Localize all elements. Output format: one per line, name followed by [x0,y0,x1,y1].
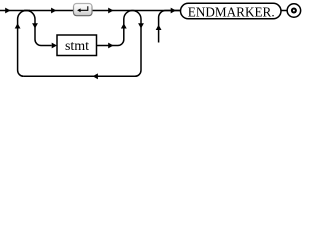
wire: loop-back branch down to bottom rail [24,11,141,77]
arrow: loop-return rail, pointing up [15,23,21,28]
wire: main line start segment [0,10,30,12]
arrow: stmt exit rail, pointing up [121,23,127,28]
wire: loop-return rail left (up into main line) [18,11,27,77]
arrow: bottom rail loop-back, pointing left [93,73,98,79]
nonterminal: stmt box [57,35,97,56]
svg-text:ENDMARKER.: ENDMARKER. [188,4,275,19]
end symbol: bullseye [287,4,301,18]
wire: main line through NEWLINE row [24,10,74,12]
arrow: main line before NEWLINE key, pointing right [51,8,56,14]
wire: skip stub rising into main line before ENDMARKER [159,11,181,43]
arrowheads [5,8,176,80]
wire: stmt row exit up to main line [97,11,133,46]
arrow: into ENDMARKER oval, pointing right [171,8,176,14]
arrow: main line after NEWLINE key, pointing right [108,8,113,14]
svg-text:stmt: stmt [65,39,89,54]
arrow: branch to stmt, pointing down [32,23,38,28]
arrow: loop-back rail, pointing down [138,23,144,28]
arrow: after stmt box, pointing right [108,43,113,49]
arrow: skip stub, pointing up [156,25,162,30]
terminal: NEWLINE keyboard key button [74,4,93,16]
icon: carriage-return arrow inside key [80,6,88,10]
arrow: into stmt box, pointing right [52,43,57,49]
wire: connector from ENDMARKER oval to end symbol [281,10,287,12]
wire: main line after NEWLINE key [92,10,134,12]
terminal: ENDMARKER. oval [181,3,282,19]
wire: branch down to stmt row [26,11,51,46]
arrow: start of rule, pointing right [5,8,10,14]
wire: main line into ENDMARKER [134,10,181,12]
